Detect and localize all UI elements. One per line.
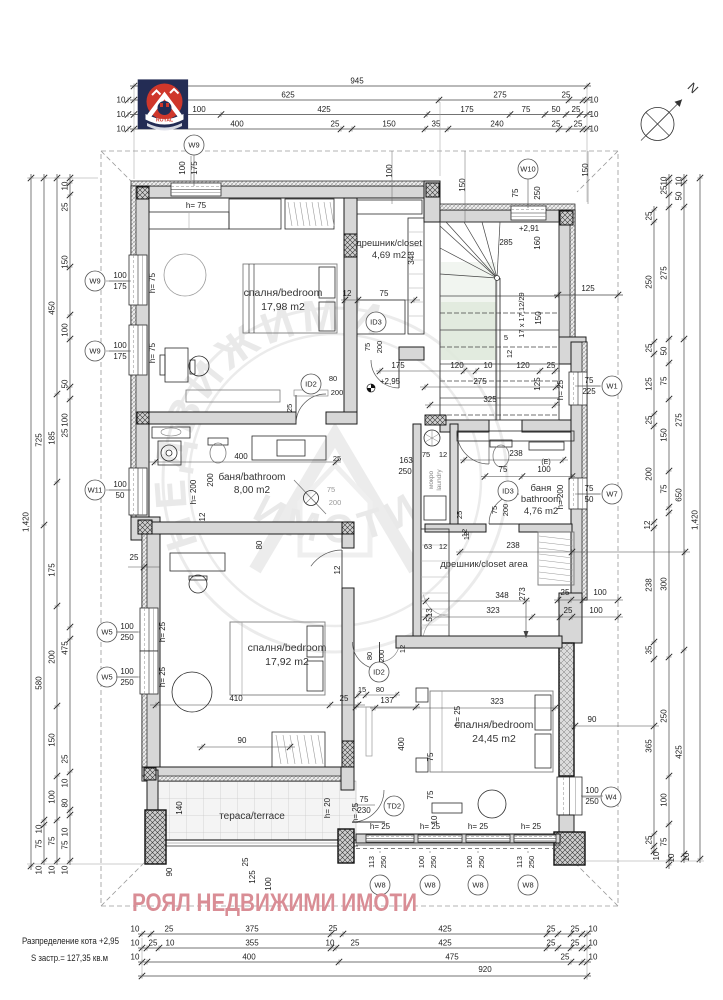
- svg-text:75: 75: [490, 506, 499, 514]
- svg-text:25: 25: [572, 105, 581, 114]
- svg-text:80: 80: [329, 374, 337, 383]
- window W11: [129, 468, 147, 515]
- svg-text:100: 100: [113, 480, 127, 489]
- wall hatch block H1: [344, 234, 357, 257]
- wall bedroom2/corridor upper: [342, 534, 354, 548]
- svg-text:300: 300: [660, 577, 669, 591]
- svg-text:323: 323: [490, 697, 504, 706]
- svg-text:250: 250: [429, 856, 438, 869]
- outer wall top stair block: [440, 210, 575, 222]
- svg-text:150: 150: [382, 120, 396, 129]
- svg-text:323: 323: [486, 606, 500, 615]
- svg-text:h= 200: h= 200: [189, 479, 198, 504]
- svg-text:10: 10: [117, 96, 126, 105]
- svg-text:25: 25: [660, 185, 669, 194]
- svg-text:Разпределение кота +2,95: Разпределение кота +2,95: [22, 936, 119, 946]
- svg-text:175: 175: [190, 161, 199, 175]
- svg-text:400: 400: [242, 953, 256, 962]
- door ID2 bathroom1: [296, 394, 326, 424]
- dim col right 4: [691, 174, 704, 863]
- window W9 left lower: [129, 325, 147, 375]
- svg-text:h= 25: h= 25: [556, 379, 565, 400]
- svg-text:10: 10: [590, 125, 599, 134]
- svg-text:75: 75: [363, 343, 372, 351]
- dim row bottom 2: [131, 939, 598, 952]
- svg-text:150: 150: [534, 311, 543, 325]
- corner hatch top-left: [137, 187, 149, 199]
- window W8 d: [514, 835, 556, 842]
- svg-text:200: 200: [331, 388, 344, 397]
- svg-text:50: 50: [660, 346, 669, 355]
- svg-text:113: 113: [367, 856, 376, 868]
- window W5 upper: [140, 608, 158, 651]
- svg-text:75: 75: [426, 752, 435, 761]
- right wall corner block: [559, 337, 586, 364]
- svg-text:10: 10: [35, 824, 44, 833]
- svg-text:ID2: ID2: [305, 380, 317, 389]
- svg-text:100: 100: [61, 323, 70, 337]
- svg-text:25: 25: [547, 925, 556, 934]
- svg-text:W8: W8: [472, 881, 483, 890]
- svg-text:25: 25: [61, 754, 70, 763]
- svg-text:175: 175: [460, 105, 474, 114]
- svg-text:50: 50: [585, 495, 594, 504]
- svg-text:10: 10: [682, 852, 691, 861]
- svg-text:75: 75: [522, 105, 531, 114]
- svg-text:275: 275: [675, 413, 684, 427]
- wall bathroom1/bedroom2: [149, 522, 354, 534]
- svg-text:25: 25: [149, 939, 158, 948]
- corner hatch left step: [138, 520, 152, 534]
- svg-text:163: 163: [399, 456, 413, 465]
- corner hatch stair-right: [560, 211, 573, 225]
- svg-text:200: 200: [329, 498, 342, 507]
- svg-text:12: 12: [333, 565, 342, 574]
- svg-text:238: 238: [509, 449, 523, 458]
- svg-text:425: 425: [675, 745, 684, 759]
- bedroom2 furniture: [170, 553, 325, 767]
- bedroom3 south window sill lines: [356, 844, 560, 846]
- svg-text:h= 25: h= 25: [158, 621, 167, 642]
- svg-text:1,420: 1,420: [691, 509, 700, 530]
- svg-text:50: 50: [552, 105, 561, 114]
- svg-text:W4: W4: [605, 793, 616, 802]
- svg-text:дрешник/closet area: дрешник/closet area: [440, 559, 528, 570]
- level marker hall: [367, 384, 375, 392]
- svg-text:150: 150: [660, 428, 669, 442]
- svg-text:баня/bathroom: баня/bathroom: [218, 471, 285, 483]
- svg-text:75: 75: [327, 485, 335, 494]
- svg-text:100: 100: [589, 606, 603, 615]
- svg-text:75: 75: [660, 837, 669, 846]
- door label ID2 bedroom3: [369, 662, 389, 682]
- svg-text:75: 75: [61, 840, 70, 849]
- svg-text:10: 10: [589, 925, 598, 934]
- svg-text:10: 10: [117, 110, 126, 119]
- window W1: [569, 372, 587, 405]
- svg-text:10: 10: [652, 851, 661, 860]
- svg-text:125: 125: [581, 284, 595, 293]
- outer wall right lower hatched: [559, 643, 574, 776]
- svg-text:945: 945: [350, 77, 364, 86]
- svg-text:25: 25: [130, 553, 139, 562]
- bathroom2 fixtures: [457, 431, 574, 467]
- window label W8 x478: [468, 875, 488, 895]
- svg-text:365: 365: [645, 739, 654, 753]
- svg-text:h= 75: h= 75: [186, 201, 207, 210]
- door ID2 bedroom3: [353, 642, 380, 669]
- outer wall left upper: [131, 186, 149, 517]
- svg-text:10: 10: [675, 176, 684, 185]
- svg-text:5: 5: [504, 333, 508, 342]
- bottom wall bedroom3: [356, 834, 560, 843]
- window label W9 top: [184, 135, 204, 155]
- right wall step: [559, 593, 582, 643]
- bedroom1 desk and chair: [160, 348, 209, 382]
- wall hall/bathroom1 right: [326, 412, 357, 424]
- wall closet area/bedroom3: [396, 636, 562, 648]
- svg-text:75: 75: [360, 795, 369, 804]
- window label W8 x380: [370, 875, 390, 895]
- wall laundry/bath2: [450, 424, 458, 524]
- svg-text:120: 120: [516, 361, 530, 370]
- svg-text:25: 25: [561, 953, 570, 962]
- dim row top 3: [130, 105, 599, 119]
- svg-text:10: 10: [131, 939, 140, 948]
- svg-text:25: 25: [645, 835, 654, 844]
- svg-text:10: 10: [61, 778, 70, 787]
- window label W9 left upper: [85, 271, 105, 291]
- svg-text:100: 100: [120, 622, 134, 631]
- svg-text:25: 25: [340, 694, 349, 703]
- window label W8 x430: [420, 875, 440, 895]
- outer wall right stairwell: [559, 210, 575, 345]
- svg-text:240: 240: [490, 120, 504, 129]
- svg-text:150: 150: [458, 178, 467, 192]
- terrace railing: [147, 839, 358, 841]
- bottom right end extension: [586, 930, 588, 980]
- svg-text:80: 80: [61, 798, 70, 807]
- svg-text:спалня/bedroom: спалня/bedroom: [248, 642, 327, 654]
- svg-text:10: 10: [660, 176, 669, 185]
- window label W1: [602, 376, 622, 396]
- logo Royal: [138, 79, 188, 130]
- svg-text:275: 275: [660, 266, 669, 280]
- hatch block laundry top: [425, 415, 446, 425]
- bedroom1 furniture: bed: [243, 264, 337, 333]
- staircase: [440, 222, 559, 420]
- svg-text:h= 75: h= 75: [148, 272, 157, 293]
- dim 125 stairs: [554, 294, 623, 296]
- svg-text:75: 75: [422, 450, 430, 459]
- outer wall top: [131, 186, 440, 198]
- svg-text:75: 75: [48, 836, 57, 845]
- svg-text:h= 20: h= 20: [323, 797, 332, 818]
- svg-text:725: 725: [35, 433, 44, 447]
- svg-text:10: 10: [61, 865, 70, 874]
- svg-text:425: 425: [438, 925, 452, 934]
- svg-text:425: 425: [317, 105, 331, 114]
- svg-text:100: 100: [660, 793, 669, 807]
- watermark emblem: [145, 290, 507, 652]
- svg-text:175: 175: [48, 563, 57, 577]
- svg-text:h= 25: h= 25: [468, 822, 489, 831]
- door stairs: [457, 432, 489, 464]
- terrace left wall: [147, 770, 158, 846]
- svg-text:4,69 m2: 4,69 m2: [372, 250, 406, 261]
- dim col right 1: [643, 206, 661, 860]
- svg-text:425: 425: [438, 939, 452, 948]
- svg-text:12: 12: [462, 532, 471, 540]
- corner hatch bottom-left: [144, 768, 156, 780]
- svg-text:25: 25: [285, 404, 294, 412]
- svg-text:ID3: ID3: [370, 318, 382, 327]
- svg-text:25: 25: [333, 454, 341, 463]
- svg-text:650: 650: [675, 488, 684, 502]
- laundry machines + fan: [424, 430, 446, 520]
- svg-text:75: 75: [35, 839, 44, 848]
- svg-text:спалня/bedroom: спалня/bedroom: [244, 287, 323, 299]
- svg-text:25: 25: [645, 343, 654, 352]
- closet area hanging wardrobe: [538, 532, 574, 585]
- svg-text:513: 513: [425, 608, 434, 622]
- door ID3 closet1: [371, 360, 399, 388]
- svg-text:475: 475: [61, 641, 70, 655]
- svg-text:250: 250: [527, 856, 536, 869]
- window label W4: [601, 787, 621, 807]
- svg-text:25: 25: [241, 857, 250, 866]
- svg-text:100: 100: [178, 161, 187, 175]
- svg-text:W11: W11: [88, 486, 103, 495]
- svg-text:25: 25: [547, 361, 556, 370]
- svg-text:W8: W8: [424, 881, 435, 890]
- svg-text:100: 100: [465, 856, 474, 869]
- door ID3 bath2: [489, 494, 519, 524]
- window W5 lower: [140, 651, 158, 694]
- svg-text:мокро: мокро: [428, 471, 435, 490]
- svg-text:100: 100: [593, 588, 607, 597]
- svg-text:12: 12: [398, 645, 407, 653]
- svg-text:625: 625: [281, 91, 295, 100]
- svg-text:25: 25: [455, 511, 464, 519]
- svg-text:10: 10: [166, 939, 175, 948]
- svg-text:250: 250: [477, 856, 486, 869]
- dim row bottom 3: [131, 953, 598, 966]
- svg-text:10: 10: [48, 865, 57, 874]
- svg-text:75: 75: [585, 376, 594, 385]
- svg-text:75: 75: [380, 289, 389, 298]
- outer wall right middle: [571, 342, 587, 600]
- svg-text:баня: баня: [531, 483, 552, 494]
- bath2 small dims: [481, 476, 575, 478]
- svg-text:10: 10: [35, 865, 44, 874]
- svg-text:4,76 m2: 4,76 m2: [524, 506, 558, 517]
- svg-text:250: 250: [533, 186, 542, 200]
- dim col left B: [35, 174, 48, 865]
- svg-text:25: 25: [547, 939, 556, 948]
- window label W5 lower: [97, 667, 117, 687]
- door TD2 terrace: [352, 790, 384, 822]
- svg-text:25: 25: [329, 924, 338, 933]
- svg-text:63: 63: [424, 542, 432, 551]
- wall below stairs left: [440, 420, 489, 432]
- svg-text:90: 90: [588, 715, 597, 724]
- wall below stairs right: [522, 420, 571, 432]
- svg-text:дрешник/closet: дрешник/closet: [356, 238, 422, 249]
- dim col right 2: [660, 174, 677, 869]
- svg-text:24,45 m2: 24,45 m2: [472, 733, 516, 745]
- bath2 dims: [460, 459, 568, 461]
- window W9 top: [171, 183, 221, 196]
- bedroom1 dresser: [186, 390, 280, 402]
- svg-text:400: 400: [397, 737, 406, 751]
- svg-text:25: 25: [562, 91, 571, 100]
- svg-text:580: 580: [35, 676, 44, 690]
- bath1 dims: [149, 461, 341, 463]
- svg-text:W9: W9: [89, 347, 100, 356]
- bathroom1 fixtures: [152, 427, 326, 514]
- svg-text:35: 35: [645, 645, 654, 654]
- svg-text:25: 25: [645, 211, 654, 220]
- dim col right 3: [675, 174, 692, 863]
- svg-text:250: 250: [398, 467, 412, 476]
- svg-text:25: 25: [574, 120, 583, 129]
- wall bedroom2/corridor lower: [342, 588, 354, 767]
- svg-text:ROYAL: ROYAL: [156, 118, 173, 124]
- dim row bottom 4: [138, 965, 591, 979]
- svg-text:h= 25: h= 25: [521, 822, 542, 831]
- svg-text:12: 12: [439, 542, 447, 551]
- svg-text:W5: W5: [101, 628, 112, 637]
- svg-text:10: 10: [117, 125, 126, 134]
- svg-text:75: 75: [511, 188, 520, 197]
- svg-text:РОЯЛ НЕДВИЖИМИ ИМОТИ: РОЯЛ НЕДВИЖИМИ ИМОТИ: [132, 889, 417, 917]
- terrace column left: [145, 810, 166, 864]
- svg-text:10: 10: [430, 815, 439, 824]
- door label ID3 closet1: [366, 312, 386, 332]
- svg-text:10: 10: [61, 181, 70, 190]
- door label ID2 hall: [301, 374, 321, 394]
- wall bedroom1/closet1: [344, 198, 357, 412]
- wall hall/bathroom1 left: [149, 412, 296, 424]
- window W9 left upper: [129, 255, 147, 305]
- svg-text:W9: W9: [188, 141, 199, 150]
- terrace floor: [158, 781, 356, 840]
- svg-text:+2,91: +2,91: [519, 224, 540, 233]
- svg-text:W5: W5: [101, 673, 112, 682]
- svg-text:275: 275: [493, 91, 507, 100]
- window W8 c: [466, 835, 510, 842]
- svg-text:410: 410: [229, 694, 243, 703]
- svg-text:400: 400: [230, 120, 244, 129]
- svg-text:12: 12: [343, 289, 352, 298]
- svg-text:250: 250: [660, 709, 669, 723]
- svg-text:75: 75: [499, 465, 508, 474]
- svg-text:225: 225: [582, 387, 596, 396]
- window W10: [511, 206, 546, 220]
- svg-text:175: 175: [113, 352, 127, 361]
- svg-text:400: 400: [234, 452, 248, 461]
- svg-text:10: 10: [326, 939, 335, 948]
- left wall step block: [131, 517, 160, 540]
- svg-text:50: 50: [61, 379, 70, 388]
- svg-text:спалня/bedroom: спалня/bedroom: [455, 719, 534, 731]
- svg-text:75: 75: [660, 376, 669, 385]
- svg-text:140: 140: [175, 801, 184, 815]
- svg-text:450: 450: [48, 301, 57, 315]
- closet area dims: [421, 600, 530, 602]
- svg-text:250: 250: [120, 678, 134, 687]
- svg-text:355: 355: [245, 939, 259, 948]
- svg-text:S застр.= 127,35 кв.м: S застр.= 127,35 кв.м: [31, 953, 108, 963]
- svg-text:348: 348: [407, 251, 416, 265]
- closet area wardrobes: [421, 529, 449, 636]
- svg-text:113: 113: [515, 856, 524, 868]
- svg-text:25: 25: [165, 925, 174, 934]
- svg-text:10: 10: [590, 110, 599, 119]
- svg-text:250: 250: [379, 856, 388, 869]
- svg-text:ID2: ID2: [373, 668, 385, 677]
- svg-text:12: 12: [439, 450, 447, 459]
- svg-text:12: 12: [505, 350, 514, 358]
- dim col left D: [61, 174, 74, 865]
- wall step closet/stair: [424, 181, 440, 222]
- svg-text:bathroom: bathroom: [521, 494, 561, 505]
- svg-text:W8: W8: [522, 881, 533, 890]
- svg-text:75: 75: [660, 484, 669, 493]
- bedroom3 furniture: [416, 688, 553, 818]
- bedroom3 tall furniture: [366, 707, 372, 756]
- north arrow: [641, 100, 682, 141]
- svg-text:273: 273: [518, 587, 527, 601]
- right wall bottom corner: [554, 832, 585, 865]
- svg-text:10: 10: [61, 827, 70, 836]
- svg-text:25: 25: [571, 939, 580, 948]
- svg-text:35: 35: [432, 120, 441, 129]
- svg-text:ID3: ID3: [502, 487, 514, 496]
- svg-text:75: 75: [426, 790, 435, 799]
- svg-text:100: 100: [585, 786, 599, 795]
- hall dim row 2: [420, 386, 560, 388]
- door label TD2 terrace: [384, 796, 404, 816]
- dim col left C: [48, 174, 61, 865]
- svg-text:200: 200: [501, 504, 510, 517]
- svg-text:W10: W10: [520, 165, 535, 174]
- dim row top 2: [130, 91, 599, 105]
- svg-text:200: 200: [377, 650, 386, 663]
- svg-text:75: 75: [585, 484, 594, 493]
- svg-text:100: 100: [61, 413, 70, 427]
- svg-text:125: 125: [645, 377, 654, 391]
- svg-text:12: 12: [643, 520, 652, 529]
- svg-text:h= 25: h= 25: [158, 666, 167, 687]
- door label ID3 bath2: [498, 481, 518, 501]
- window W8 a: [366, 835, 414, 842]
- svg-text:100: 100: [192, 105, 206, 114]
- window label W7: [602, 484, 622, 504]
- svg-text:25: 25: [561, 588, 570, 597]
- extension lines dims: [133, 88, 135, 179]
- svg-text:тераса/terrace: тераса/terrace: [219, 811, 285, 822]
- svg-text:10: 10: [131, 925, 140, 934]
- svg-text:90: 90: [165, 867, 174, 876]
- svg-text:150: 150: [48, 733, 57, 747]
- svg-text:10: 10: [484, 361, 493, 370]
- svg-text:25: 25: [331, 120, 340, 129]
- svg-text:15: 15: [358, 685, 366, 694]
- svg-text:238: 238: [645, 578, 654, 592]
- dim col left A: [22, 174, 35, 870]
